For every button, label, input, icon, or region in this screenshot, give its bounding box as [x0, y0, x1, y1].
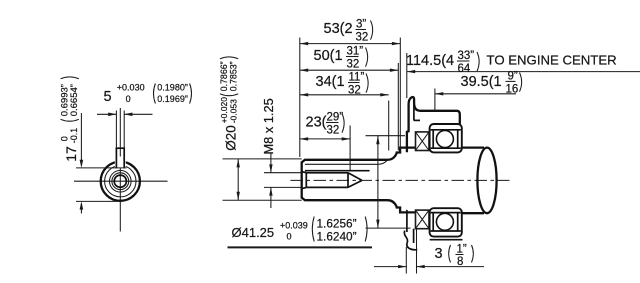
svg-text:0.7866”: 0.7866” [219, 61, 229, 91]
svg-text:17: 17 [63, 146, 79, 162]
svg-text:0: 0 [287, 231, 292, 241]
svg-text:23(: 23( [306, 115, 327, 131]
svg-text:Ø41.25: Ø41.25 [232, 225, 275, 240]
svg-text:TO ENGINE CENTER: TO ENGINE CENTER [487, 52, 617, 67]
svg-text:+0.039: +0.039 [280, 220, 308, 230]
svg-text:9”: 9” [508, 71, 518, 83]
svg-text:5: 5 [104, 89, 112, 105]
svg-text:16: 16 [506, 84, 519, 96]
svg-text:50(1: 50(1 [314, 48, 343, 64]
svg-text:+0.020: +0.020 [219, 97, 229, 124]
svg-text:1”: 1” [457, 244, 467, 256]
svg-text:Ø20: Ø20 [224, 125, 239, 151]
svg-text:0.1969”: 0.1969” [157, 94, 188, 104]
svg-text:11”: 11” [349, 72, 365, 84]
svg-text:M8 x 1.25: M8 x 1.25 [261, 98, 276, 154]
svg-text:32: 32 [327, 125, 340, 137]
svg-text:-0.1: -0.1 [69, 128, 79, 144]
svg-text:3”: 3” [356, 19, 366, 31]
svg-text:0.6654”: 0.6654” [69, 84, 80, 116]
svg-text:34(1: 34(1 [316, 74, 345, 90]
svg-text:-0.053: -0.053 [229, 99, 239, 123]
svg-text:0.7853”: 0.7853” [229, 61, 239, 91]
svg-text:32: 32 [356, 32, 369, 44]
svg-text:1.6240”: 1.6240” [317, 229, 357, 243]
svg-text:32: 32 [348, 85, 361, 97]
svg-text:39.5(1: 39.5(1 [461, 74, 502, 90]
svg-text:0: 0 [60, 136, 70, 141]
svg-text:29”: 29” [327, 112, 344, 124]
svg-text:33”: 33” [458, 50, 475, 62]
svg-text:3: 3 [435, 246, 443, 262]
svg-text:114.5(4: 114.5(4 [406, 53, 454, 69]
svg-text:53(2: 53(2 [324, 21, 353, 37]
svg-text:32: 32 [347, 59, 360, 71]
svg-text:0: 0 [126, 94, 131, 104]
svg-text:0.1980”: 0.1980” [157, 82, 188, 92]
svg-text:8: 8 [457, 256, 463, 268]
svg-text:31”: 31” [347, 46, 364, 58]
svg-text:+0.030: +0.030 [117, 82, 145, 92]
